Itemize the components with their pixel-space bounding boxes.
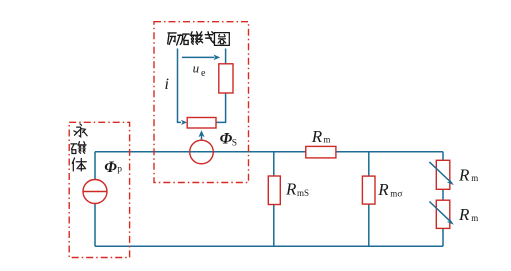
source: Phi_p internal bar [83, 191, 107, 193]
resistor: coil series element horizontal [187, 118, 216, 129]
svg-text:p: p [117, 164, 122, 174]
svg-text:mS: mS [297, 188, 309, 198]
text: ti (body) character [72, 158, 86, 171]
wire: coil right terminal stub [225, 49, 227, 64]
svg-text:R: R [311, 127, 323, 146]
wire: coil right vertical below resistor [216, 93, 226, 122]
wire: Rm-sigma branch vertical [368, 152, 370, 247]
svg-text:e: e [201, 68, 206, 79]
text: ci (magnetic) character left box [71, 142, 86, 154]
box: permanent magnet dash-dot frame [69, 122, 129, 257]
svg-text:R: R [377, 180, 389, 199]
resistor: variable reluctance lower [436, 200, 450, 228]
resistor: variable reluctance upper [436, 160, 450, 189]
arrowhead: variable lower diagonal [447, 219, 454, 225]
svg-text:S: S [232, 139, 237, 149]
text: xian (wire) character [199, 32, 214, 43]
svg-text:u: u [193, 60, 200, 75]
resistor RmS vertical [268, 176, 280, 205]
arrowhead: flux Phi_S up [198, 130, 204, 137]
wire: RmS branch vertical [273, 152, 275, 247]
arrow: variable upper diagonal shaft [429, 162, 449, 181]
svg-text:Φ: Φ [104, 159, 117, 176]
wire: main horizontal bus left of Rm [95, 151, 306, 153]
arrow: variable lower diagonal shaft [429, 202, 449, 221]
wire: right branch vertical with variable reluctances [442, 152, 444, 247]
box: excitation coil dash-dot frame [154, 22, 249, 183]
svg-text:R: R [458, 205, 470, 224]
svg-text:m: m [323, 135, 330, 145]
arrowhead: u_e direction [213, 55, 220, 61]
arrowhead: current into coil resistor [181, 120, 187, 125]
svg-text:Φ: Φ [220, 130, 233, 147]
svg-text:m: m [471, 173, 478, 183]
wire: left branch above permanent-magnet source [94, 152, 96, 180]
arrowhead: variable upper diagonal [447, 179, 454, 185]
svg-text:i: i [165, 76, 169, 93]
resistor Rm horizontal [306, 146, 336, 158]
text: ci (magnetic) character top [183, 32, 199, 45]
resistor: coil winding vertical element [219, 64, 233, 93]
text: li (excitation) character [168, 33, 183, 45]
arrow: u_e direction (shaft) [182, 56, 215, 58]
resistor Rm-sigma vertical [362, 176, 375, 204]
source: permanent magnet Phi_p circle [83, 180, 107, 204]
wire: left branch below permanent-magnet source [94, 204, 96, 247]
svg-text:R: R [458, 165, 470, 184]
svg-text:R: R [285, 180, 297, 199]
svg-text:m: m [390, 188, 397, 198]
wire: main horizontal bus right of Rm [336, 151, 443, 153]
text: quan (coil) character [214, 33, 229, 46]
wire: bottom horizontal bus [95, 245, 443, 247]
arrow: flux Phi_S up (shaft) [201, 135, 203, 140]
svg-text:m: m [471, 213, 478, 223]
wire: coil loop left vertical with corner [178, 49, 182, 123]
svg-text:σ: σ [397, 190, 402, 200]
text: yong (permanent) character [74, 124, 87, 137]
source: Phi_S mmf circle [190, 140, 214, 164]
